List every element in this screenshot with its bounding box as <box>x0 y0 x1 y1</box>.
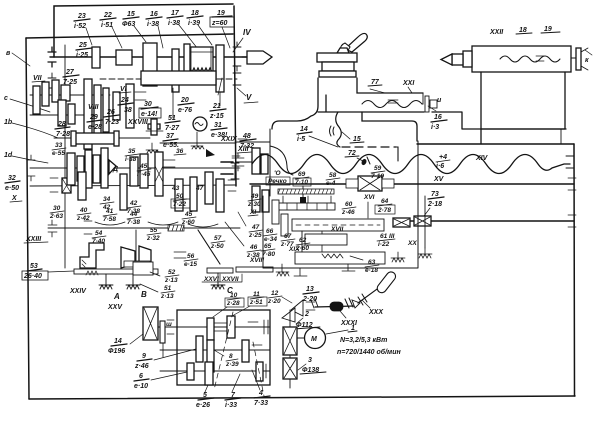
svg-text:7·28: 7·28 <box>56 131 70 138</box>
svg-text:XXII: XXII <box>489 29 504 36</box>
svg-text:14: 14 <box>114 338 122 345</box>
svg-text:25: 25 <box>78 42 87 49</box>
svg-text:z=60: z=60 <box>211 20 227 27</box>
svg-text:М: М <box>311 336 317 343</box>
svg-text:е·15: е·15 <box>184 261 197 268</box>
svg-text:67: 67 <box>284 233 292 240</box>
svg-text:26: 26 <box>106 109 115 116</box>
svg-text:57: 57 <box>214 235 222 242</box>
svg-text:58: 58 <box>329 172 337 179</box>
svg-text:29: 29 <box>89 114 98 121</box>
svg-text:7·10: 7·10 <box>295 179 308 186</box>
svg-text:z·13: z·13 <box>160 293 174 300</box>
svg-text:34: 34 <box>103 196 111 203</box>
svg-text:14: 14 <box>300 126 308 133</box>
svg-text:63: 63 <box>368 259 376 266</box>
svg-text:в: в <box>6 50 11 57</box>
svg-text:24: 24 <box>120 97 129 104</box>
svg-text:2·78: 2·78 <box>377 207 391 214</box>
svg-text:е·34: е·34 <box>264 236 277 243</box>
svg-text:19: 19 <box>544 26 552 33</box>
svg-text:7·22: 7·22 <box>173 201 186 208</box>
svg-text:i·52: i·52 <box>74 23 86 30</box>
svg-text:16: 16 <box>434 114 442 121</box>
svg-text:XVII: XVII <box>330 226 343 233</box>
svg-text:z·28: z·28 <box>226 300 240 307</box>
svg-text:i·3: i·3 <box>431 124 439 131</box>
svg-text:z·46: z·46 <box>134 363 149 370</box>
svg-text:е·18: е·18 <box>365 267 378 274</box>
svg-text:XIX: XIX <box>288 246 300 253</box>
svg-text:48: 48 <box>242 133 251 140</box>
svg-text:46: 46 <box>249 244 258 251</box>
svg-text:XXVIII: XXVIII <box>127 119 149 126</box>
svg-text:n=720/1440 об/мин: n=720/1440 об/мин <box>337 348 402 356</box>
svg-text:56: 56 <box>187 253 195 260</box>
svg-text:1b: 1b <box>4 119 13 126</box>
svg-text:40: 40 <box>79 207 88 214</box>
svg-text:XXIV: XXIV <box>69 288 87 295</box>
svg-text:и: и <box>437 97 442 104</box>
svg-text:7·40: 7·40 <box>92 238 105 245</box>
svg-text:15: 15 <box>127 11 135 18</box>
svg-text:A: A <box>113 292 120 301</box>
svg-text:i·22: i·22 <box>378 241 390 248</box>
svg-text:51: 51 <box>168 115 176 122</box>
svg-text:V: V <box>246 93 252 102</box>
svg-text:VI: VI <box>120 86 128 93</box>
svg-text:XXXI: XXXI <box>340 320 358 327</box>
svg-text:к: к <box>585 57 589 64</box>
svg-text:е·50: е·50 <box>5 185 19 192</box>
svg-text:31: 31 <box>214 122 222 129</box>
svg-text:62: 62 <box>299 237 307 244</box>
svg-text:+4: +4 <box>439 154 447 161</box>
svg-text:49: 49 <box>250 193 259 200</box>
svg-text:2·18: 2·18 <box>427 201 442 208</box>
svg-text:5: 5 <box>203 392 207 399</box>
svg-text:i·38: i·38 <box>125 156 137 163</box>
svg-text:28: 28 <box>57 121 66 128</box>
svg-text:е·38!: е·38! <box>211 132 228 139</box>
svg-text:73: 73 <box>431 191 439 198</box>
svg-text:7·38: 7·38 <box>127 219 140 226</box>
svg-text:XXV: XXV <box>107 304 123 311</box>
svg-text:7·19: 7·19 <box>371 173 384 180</box>
svg-text:Речко: Речко <box>268 178 287 185</box>
svg-text:45: 45 <box>139 163 148 170</box>
svg-text:XVI: XVI <box>363 194 375 201</box>
svg-text:42: 42 <box>129 200 138 207</box>
svg-text:21: 21 <box>212 103 221 110</box>
svg-text:XV: XV <box>433 176 445 183</box>
svg-text:60: 60 <box>345 201 353 208</box>
svg-text:1d: 1d <box>4 152 13 159</box>
svg-text:z·50: z·50 <box>210 243 224 250</box>
svg-text:B: B <box>141 290 147 299</box>
svg-text:е·55: е·55 <box>52 150 65 157</box>
svg-text:43: 43 <box>171 185 180 192</box>
svg-text:47: 47 <box>251 224 260 231</box>
svg-text:i·33: i·33 <box>225 402 237 409</box>
svg-text:z·32: z·32 <box>146 235 160 242</box>
svg-text:30: 30 <box>144 101 152 108</box>
svg-text:i·38: i·38 <box>147 21 159 28</box>
svg-text:i·5: i·5 <box>297 136 305 143</box>
svg-text:27: 27 <box>65 69 75 76</box>
svg-text:с: с <box>4 95 8 102</box>
svg-text:'О: 'О <box>274 170 281 177</box>
svg-text:Д: Д <box>112 166 118 173</box>
svg-text:е·10: е·10 <box>134 383 148 390</box>
svg-text:z·51: z·51 <box>249 299 263 306</box>
svg-text:Ф63: Ф63 <box>122 21 135 28</box>
svg-text:3: 3 <box>308 357 312 364</box>
svg-text:2·63: 2·63 <box>49 213 63 220</box>
svg-text:44: 44 <box>129 211 138 218</box>
svg-text:13: 13 <box>306 286 314 293</box>
svg-text:XVIII: XVIII <box>249 257 264 264</box>
svg-text:z·20: z·20 <box>267 298 281 305</box>
svg-text:54: 54 <box>95 230 103 237</box>
svg-text:66: 66 <box>266 228 274 235</box>
svg-text:i·38: i·38 <box>168 20 180 27</box>
svg-text:XXX: XXX <box>368 309 384 316</box>
svg-text:30: 30 <box>53 205 61 212</box>
svg-text:20: 20 <box>180 97 189 104</box>
svg-text:z·46: z·46 <box>341 209 355 216</box>
svg-text:18: 18 <box>191 10 199 17</box>
svg-text:32: 32 <box>8 175 16 182</box>
svg-text:16: 16 <box>150 11 158 18</box>
svg-text:VIII: VIII <box>88 104 100 111</box>
svg-text:XIV: XIV <box>475 155 489 162</box>
svg-text:35: 35 <box>128 148 136 155</box>
svg-text:41: 41 <box>105 208 114 215</box>
svg-text:i·51: i·51 <box>101 22 113 29</box>
svg-text:е·76: е·76 <box>178 107 192 114</box>
svg-text:52: 52 <box>168 269 176 276</box>
svg-text:7·58: 7·58 <box>103 216 116 223</box>
svg-text:IV: IV <box>243 28 251 37</box>
svg-text:7·33: 7·33 <box>254 400 268 407</box>
svg-text:47: 47 <box>195 185 204 192</box>
svg-text:55: 55 <box>150 227 158 234</box>
svg-text:z·13: z·13 <box>164 277 178 284</box>
svg-text:Ф196: Ф196 <box>108 348 125 355</box>
svg-text:z·39: z·39 <box>225 361 239 368</box>
svg-text:59: 59 <box>374 165 382 172</box>
svg-text:е·26: е·26 <box>196 402 210 409</box>
svg-text:7·23: 7·23 <box>105 119 119 126</box>
svg-text:64: 64 <box>381 198 389 205</box>
svg-text:z·25: z·25 <box>248 232 262 239</box>
svg-text:6: 6 <box>139 373 143 380</box>
svg-text:i·25: i·25 <box>76 52 88 59</box>
svg-text:2: 2 <box>304 311 309 318</box>
svg-text:53: 53 <box>30 263 38 270</box>
svg-text:45: 45 <box>184 211 193 218</box>
svg-text:51: 51 <box>164 285 172 292</box>
svg-text:е·14!: е·14! <box>141 111 158 118</box>
svg-text:4: 4 <box>258 390 263 397</box>
svg-text:X: X <box>11 195 18 202</box>
svg-text:65: 65 <box>264 243 272 250</box>
svg-text:ш: ш <box>166 321 172 328</box>
svg-text:е·4: е·4 <box>326 180 336 187</box>
svg-text:33: 33 <box>55 142 63 149</box>
svg-text:8: 8 <box>229 353 233 360</box>
svg-text:z·15: z·15 <box>209 113 224 120</box>
svg-text:i·6: i·6 <box>436 163 444 170</box>
svg-text:XX: XX <box>407 240 417 247</box>
svg-text:26·40: 26·40 <box>23 273 42 280</box>
svg-text:N=3,2/5,3 кВт: N=3,2/5,3 кВт <box>340 337 387 344</box>
svg-text:7·27: 7·27 <box>165 125 180 132</box>
svg-text:69: 69 <box>298 171 306 178</box>
svg-text:XXI: XXI <box>402 80 415 87</box>
svg-text:12: 12 <box>271 290 279 297</box>
svg-text:23: 23 <box>77 13 86 20</box>
svg-text:Г·45: Г·45 <box>137 171 151 178</box>
svg-text:9: 9 <box>142 353 146 360</box>
svg-text:е·28: е·28 <box>88 124 102 131</box>
svg-text:z·30: z·30 <box>247 201 261 208</box>
svg-text:22: 22 <box>103 12 112 19</box>
svg-text:38: 38 <box>124 107 132 114</box>
